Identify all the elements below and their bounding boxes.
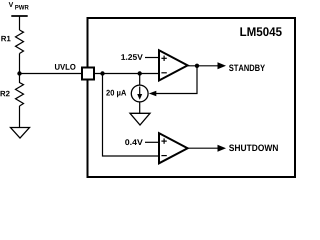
arrow STANDBY output [218, 62, 227, 69]
pin UVLO square [82, 68, 94, 80]
wire U1 output [188, 65, 219, 67]
STANDBY label [229, 65, 265, 72]
resistor R2 label [1, 91, 10, 96]
arrow SHUTDOWN output [218, 145, 227, 152]
comparator U2 (shutdown) [159, 133, 188, 163]
wire branch down to current source [139, 74, 141, 86]
IC label LM5045 [240, 27, 281, 36]
IC boundary box LM5045 [88, 18, 296, 177]
wire R2 to ground [19, 106, 21, 128]
comparator U1 minus sign [161, 72, 166, 74]
resistor R2 [16, 74, 24, 107]
resistor R1 [16, 30, 24, 54]
reference 0.4V label [125, 139, 143, 145]
wire 1.25V to comparator U1 non-inverting input [145, 57, 159, 59]
node VPWR label [9, 2, 14, 7]
junction R1/R2 node [17, 71, 21, 75]
comparator U1 plus sign [161, 56, 166, 61]
wire U2 output [188, 147, 219, 149]
junction UVLO to shutdown branch [100, 71, 104, 75]
ground under R2 [11, 128, 30, 139]
SHUTDOWN label [229, 145, 278, 152]
comparator U1 (standby) [159, 50, 188, 80]
comparator U2 plus sign [161, 138, 166, 143]
current source internal arrow [139, 87, 141, 96]
current source I1 20uA [131, 85, 148, 102]
wire VPWR bar to R1 [19, 16, 21, 30]
wire UVLO pin to comparator U1 inverting input [94, 73, 159, 75]
ground under current source [130, 113, 150, 125]
junction U1 output feedback [195, 64, 199, 68]
wire node to UVLO pin [20, 73, 84, 75]
resistor R1 label [1, 36, 10, 41]
wire branch down to comparator U2 inverting input [103, 74, 160, 157]
wire R1 to node UVLO [19, 54, 21, 75]
arrow feedback into current source [149, 91, 157, 97]
comparator U2 minus sign [161, 155, 166, 157]
wire feedback U1 output to current source [155, 66, 197, 94]
VPWR supply terminal bar [11, 15, 27, 17]
wire 0.4V to comparator U2 non-inverting input [145, 141, 159, 143]
junction UVLO to current source branch [138, 71, 142, 75]
node UVLO label [55, 64, 76, 70]
current source value label 20uA [106, 90, 126, 97]
wire current source to ground [139, 102, 141, 113]
reference 1.25V label [121, 54, 142, 60]
